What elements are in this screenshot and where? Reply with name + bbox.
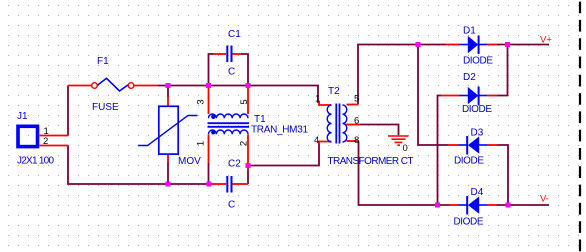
wire D3 anode down to V- junction (498, 145, 509, 205)
wire T1 pin2 to T2 pin4 (248, 143, 319, 166)
capacitor C1 (227, 46, 231, 63)
svg-text:T2: T2 (328, 86, 340, 97)
svg-text:C: C (228, 67, 235, 78)
svg-text:2: 2 (43, 136, 48, 147)
wire T2 pin8 down to D4 row (359, 141, 450, 205)
wire D1 row from junction (418, 44, 446, 46)
wire J1 pin2 down and bottom run to C2 (68, 146, 211, 185)
svg-text:MOV: MOV (178, 156, 201, 167)
wire C1 loop left (209, 54, 214, 86)
junction fuse/MOV top (166, 83, 171, 88)
wire D2 anode lead (441, 95, 460, 97)
wire D1 cathode lead (487, 44, 497, 46)
wire C1 left lead (214, 53, 227, 55)
wire corner to fuse left (68, 85, 91, 87)
svg-text:F1: F1 (97, 56, 109, 67)
wire junction A down to D3 row (418, 45, 448, 146)
wire T1 pin2 lower segment (247, 170, 249, 184)
wire MOV bottom lead (167, 155, 169, 162)
ground (388, 136, 409, 145)
wire D4 cathode lead (449, 204, 459, 206)
wire T1 pin2 lead (247, 135, 249, 171)
fuse F1 (92, 78, 134, 91)
diode D2 (460, 87, 488, 106)
svg-text:C2: C2 (228, 159, 241, 170)
svg-text:V+: V+ (540, 35, 552, 46)
wire C1 loop right (241, 54, 248, 86)
wire J1 pin2 lead (40, 145, 69, 147)
wire D2 cathode lead (487, 95, 497, 97)
diode D4 (459, 196, 488, 215)
polarity dot T1 primary (211, 115, 215, 119)
svg-text:J2X1 100: J2X1 100 (17, 156, 54, 167)
svg-text:0: 0 (403, 143, 408, 154)
junction V+ rail (505, 42, 510, 47)
svg-text:DIODE: DIODE (454, 156, 484, 167)
svg-text:5: 5 (239, 99, 250, 104)
svg-text:6: 6 (354, 116, 359, 127)
svg-text:TRAN_HM31: TRAN_HM31 (251, 125, 308, 136)
wire T2 pin5 lead (347, 104, 359, 106)
wire MOV top stub (167, 86, 169, 98)
wire T2 pin4 lead (319, 142, 332, 145)
junction node A at D1 anode (416, 42, 421, 47)
wire D2 corner vertical down to D4 row (438, 96, 442, 206)
wire T2 pin1 lead (319, 102, 332, 106)
connector J1 (18, 126, 38, 146)
svg-text:2: 2 (239, 141, 250, 146)
svg-text:D4: D4 (471, 187, 484, 198)
wire D3 cathode lead (448, 144, 459, 146)
transformer T2 (327, 104, 347, 144)
wire T1 pin1 lower segment (208, 163, 210, 184)
svg-text:DIODE: DIODE (454, 217, 484, 228)
capacitor C2 (227, 176, 231, 193)
wire C1 right lead (233, 53, 242, 55)
svg-text:DIODE: DIODE (463, 56, 493, 67)
wire V+ rail (497, 44, 549, 46)
diode D1 (460, 36, 488, 55)
svg-text:8: 8 (354, 135, 359, 146)
wire T2 pin5 up to D1 row (358, 45, 418, 105)
diode D3 (459, 136, 488, 155)
junction MOV bottom (166, 182, 171, 187)
svg-text:DIODE: DIODE (462, 104, 492, 115)
wire MOV bottom stub (167, 162, 169, 184)
wire MOV top lead (167, 97, 169, 106)
svg-text:C1: C1 (228, 29, 241, 40)
wire J1 pin1 lead (40, 135, 69, 137)
transformer T1 (208, 114, 250, 134)
junction T1 pin2 / T2 pin4 (246, 163, 251, 168)
wire C2 right lead (233, 183, 249, 185)
wire T1 pin3 lead (208, 86, 210, 115)
wire T2 pin6 lead (346, 124, 360, 126)
wire D1 anode lead (446, 44, 460, 46)
svg-text:3: 3 (196, 99, 207, 104)
polarity dot T1 secondary (211, 130, 215, 134)
svg-text:D1: D1 (463, 26, 476, 37)
svg-text:TRANSFORMER CT: TRANSFORMER CT (328, 156, 414, 167)
junction V- rail (506, 203, 511, 208)
junction C1 right (246, 83, 251, 88)
wire fuse right lead (134, 85, 158, 87)
wire T1 pin1 lead (208, 135, 210, 164)
svg-text:4: 4 (314, 135, 319, 146)
svg-text:J1: J1 (17, 111, 28, 122)
wire main AC bus to T2 pin1 drop (158, 86, 318, 104)
svg-text:FUSE: FUSE (92, 102, 119, 113)
junction C2 left (207, 182, 212, 187)
varistor MOV (138, 106, 198, 154)
wire V- rail (497, 204, 549, 206)
junction C1 left (206, 83, 211, 88)
svg-text:V-: V- (540, 194, 549, 205)
wire T2 pin8 lead (347, 140, 359, 142)
svg-text:D3: D3 (471, 128, 484, 139)
wire D4 anode lead (487, 204, 497, 206)
wire T1 pin5 lead (247, 86, 249, 115)
svg-text:T1: T1 (254, 114, 266, 125)
wire C2 left lead (211, 183, 226, 185)
wire J1 pin1 vertical up to fuse row (67, 86, 69, 136)
junction D4 row (435, 203, 440, 208)
wire center tap to ground (360, 125, 399, 136)
wire D3 anode lead (487, 144, 498, 146)
svg-text:5: 5 (354, 94, 359, 105)
svg-text:D2: D2 (463, 72, 476, 83)
svg-text:1: 1 (196, 141, 207, 146)
svg-text:C: C (228, 200, 235, 211)
svg-text:1: 1 (315, 94, 320, 105)
wire D2 cathode up to V+ junction (497, 45, 508, 96)
